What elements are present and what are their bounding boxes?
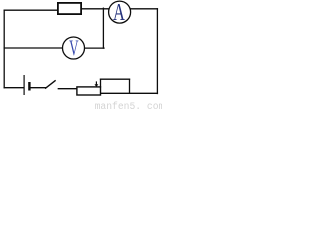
wire switch to rheostat [58, 88, 76, 90]
voltmeter U2 [63, 36, 85, 60]
wire bottom-left [4, 87, 23, 89]
wire voltmeter branch vertical drop [102, 8, 104, 48]
battery short plate [28, 82, 30, 91]
switch S blade [46, 81, 56, 89]
wire slider bar horizontal [101, 78, 130, 80]
wire voltmeter right [85, 47, 104, 49]
resistor R1 [58, 3, 81, 14]
wire slider bar right drop [129, 79, 131, 93]
wire rheostat to bottom-right corner [101, 92, 158, 94]
wire battery to switch [31, 87, 46, 89]
rheostat slider arrow stem [95, 82, 97, 84]
wire voltmeter left [4, 47, 62, 49]
svg-text:manfen5. com: manfen5. com [95, 101, 162, 111]
wire ammeter to top-right corner [131, 8, 157, 10]
wire right vertical [156, 9, 158, 94]
wire left vertical [3, 10, 5, 88]
wire top-left horizontal [4, 9, 57, 11]
ammeter U1 [109, 0, 131, 26]
svg-text:A: A [113, 0, 125, 26]
wire resistor to ammeter [82, 8, 109, 10]
rheostat slider arrowhead [95, 84, 99, 87]
wire rheostat riser up from box top-right [100, 79, 102, 87]
rheostat R2 box [77, 87, 101, 95]
battery long plate [23, 75, 25, 95]
svg-text:V: V [69, 36, 78, 60]
